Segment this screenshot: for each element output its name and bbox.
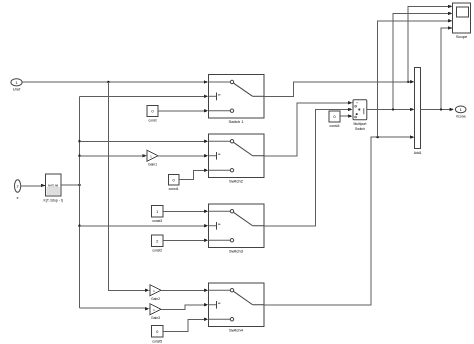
- wire e to quantizer: [21, 184, 46, 187]
- wire Gain3 to Switch4 in2: [161, 303, 208, 309]
- wire const to Switch1 in3: [158, 109, 208, 112]
- svg-text:Gain1: Gain1: [148, 163, 157, 167]
- constant const1: [168, 174, 179, 191]
- wire B: Uref down to Gain2 input: [108, 82, 149, 292]
- svg-text:const4: const4: [330, 124, 340, 128]
- wire A bottom to Gain3 input: [80, 307, 150, 310]
- svg-text:const5: const5: [152, 339, 162, 343]
- constant const3: [152, 206, 164, 223]
- wire A to Switch2 in1: [80, 140, 209, 143]
- svg-text:MATLAB: MATLAB: [48, 183, 58, 187]
- switch Switch2: [209, 134, 265, 184]
- svg-text:Switch3: Switch3: [229, 249, 244, 254]
- inport Uref: [11, 79, 22, 92]
- constant const: [147, 105, 158, 122]
- wire Gain1 to Switch2 in2: [158, 154, 208, 157]
- wire riser to Scope in3: [378, 19, 453, 137]
- switch Switch3: [209, 204, 265, 254]
- switch Switch 1: [209, 75, 265, 125]
- svg-text:const3: const3: [152, 219, 162, 223]
- wire Multiport out to Add in2: [367, 108, 415, 111]
- wire A to Gain1 input: [80, 154, 148, 157]
- svg-text:Scope: Scope: [456, 34, 468, 39]
- wire Gain2 to Switch4 in1: [161, 289, 208, 292]
- node junction Uref branch: [107, 81, 109, 83]
- svg-text:Add1: Add1: [414, 151, 422, 155]
- svg-text:e: e: [17, 196, 19, 200]
- constant const5: [152, 326, 164, 344]
- gain Gain1: [147, 150, 158, 166]
- svg-text:Vcona: Vcona: [456, 115, 466, 119]
- wire Switch1 out to Add in1: [264, 80, 415, 96]
- svg-text:K(T, tstop - t): K(T, tstop - t): [43, 199, 62, 203]
- multiport switch Multiport Switch: [353, 100, 367, 132]
- outport Vcona: [455, 106, 466, 119]
- svg-text:Switch 1: Switch 1: [228, 119, 244, 124]
- wire Uref to Switch1 in1: [22, 80, 208, 83]
- adder Add1: [414, 68, 422, 155]
- wire Add1 out to outport Vcona: [421, 108, 455, 111]
- wire quantizer out to node A: [61, 184, 80, 186]
- svg-text:Switch2: Switch2: [229, 179, 244, 184]
- gain Gain2: [150, 285, 161, 301]
- wire A to Switch3 in2: [80, 224, 209, 227]
- node junction to Scope in3: [376, 136, 378, 138]
- scope Scope: [453, 3, 471, 39]
- svg-text:Multiport: Multiport: [353, 122, 366, 126]
- svg-text:Switch4: Switch4: [229, 328, 244, 333]
- wire const1 to Switch2 in3: [179, 169, 208, 180]
- switch Switch4: [209, 283, 265, 333]
- svg-text:const1: const1: [169, 187, 179, 191]
- svg-text:Gain2: Gain2: [151, 297, 160, 301]
- wire Switch4 out to Add in3: [264, 135, 415, 304]
- node junction to Scope in4: [440, 108, 442, 110]
- node junction to Scope in2: [392, 108, 394, 110]
- svg-text:const2: const2: [152, 248, 162, 252]
- wire const5 to Switch4 in3: [163, 318, 208, 332]
- quantizer block K(T,tstop-t): [43, 174, 62, 203]
- node junction wire A to Switch3 in2: [78, 225, 80, 227]
- wire Switch2 out to Multiport in1: [264, 101, 353, 156]
- node junction to Scope in1: [407, 81, 409, 83]
- svg-text:const: const: [148, 119, 156, 123]
- gain Gain3: [150, 304, 161, 320]
- wire const4 to Multiport in3: [340, 114, 353, 117]
- wire riser to Scope in2: [393, 12, 453, 110]
- wire Switch3 out to Multiport in2: [264, 108, 353, 226]
- svg-text:2: 2: [17, 185, 19, 189]
- constant const2: [152, 235, 164, 252]
- node junction quantizer-out on wire A: [78, 184, 80, 186]
- wire riser to Scope in1: [408, 5, 452, 82]
- svg-text:Uref: Uref: [13, 87, 21, 92]
- wire riser to Scope in4: [441, 26, 453, 109]
- svg-text:Gain3: Gain3: [151, 316, 160, 320]
- wire const2 to Switch3 in3: [163, 239, 208, 242]
- wire const3 to Switch3 in1: [163, 210, 208, 213]
- node junction wire A to Switch2 in1: [78, 140, 80, 142]
- constant const4: [329, 111, 340, 128]
- node junction wire A to Gain1: [78, 155, 80, 157]
- inport e: [15, 180, 21, 200]
- svg-text:Switch: Switch: [355, 127, 365, 131]
- wire A to Switch1 in2: [80, 95, 209, 98]
- wire A vertical distribution: [79, 96, 81, 308]
